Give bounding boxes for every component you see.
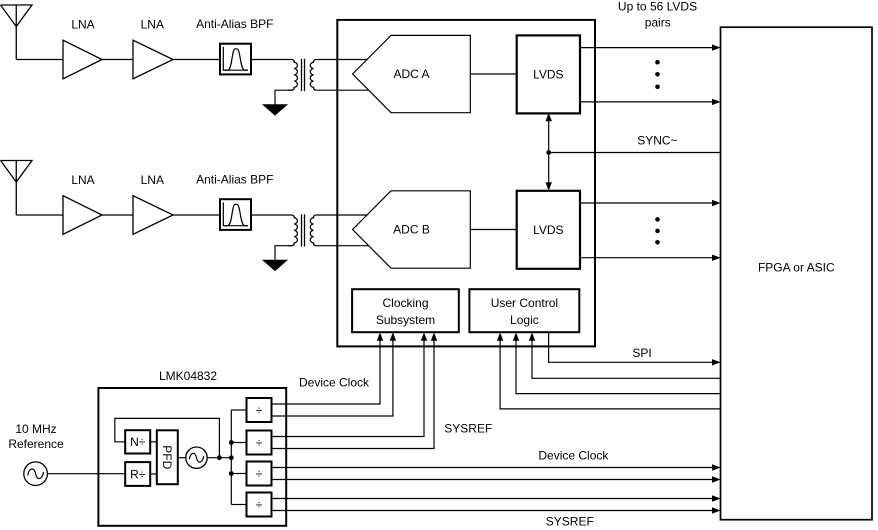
antenna ANT2 bbox=[1, 161, 33, 216]
reference oscillator G1 bbox=[24, 462, 48, 486]
svg-text:FPGA or ASIC: FPGA or ASIC bbox=[758, 261, 835, 275]
svg-text:Subsystem: Subsystem bbox=[376, 313, 435, 327]
wire divider bus vertical bbox=[230, 410, 232, 505]
wire DIV3 device clock b to FPGA bbox=[272, 479, 714, 481]
arrowhead UCL 1 bbox=[497, 332, 503, 341]
svg-text:Anti-Alias BPF: Anti-Alias BPF bbox=[196, 173, 273, 187]
wire FPGA to User Control Logic 2 bbox=[516, 340, 721, 394]
ground GND2 bbox=[262, 260, 288, 271]
wire T2 secondary bottom to ADC B bbox=[316, 245, 369, 247]
LVDS B block bbox=[517, 191, 580, 269]
wire bus to divider 1 bbox=[231, 409, 246, 411]
svg-text:Up to 56 LVDS: Up to 56 LVDS bbox=[618, 0, 697, 14]
divider block DIV2 bbox=[247, 431, 272, 455]
svg-text:LNA: LNA bbox=[71, 17, 94, 31]
divider block DIV3 bbox=[247, 462, 272, 486]
junction feedback tap bbox=[217, 455, 222, 460]
svg-text:Anti-Alias BPF: Anti-Alias BPF bbox=[196, 17, 273, 31]
wire LNA1 to LNA2 bbox=[102, 59, 133, 61]
wire feedback loop to N divider bbox=[115, 418, 220, 457]
wire bus to divider 4 bbox=[231, 504, 246, 506]
svg-text:User Control: User Control bbox=[491, 296, 558, 310]
arrowhead FPGA dclk b bbox=[712, 476, 721, 482]
wire BPF2 to transformer T2 bbox=[252, 214, 292, 216]
svg-text:LVDS: LVDS bbox=[533, 223, 563, 237]
svg-text:÷: ÷ bbox=[256, 498, 263, 512]
wire antenna2 to LNA3 bbox=[16, 214, 63, 216]
wire DIV1 device clock a to Clocking Subsystem bbox=[272, 340, 381, 404]
svg-text:SPI: SPI bbox=[632, 346, 651, 360]
arrowhead FPGA dclk a bbox=[712, 464, 721, 470]
wire DIV3 device clock a to FPGA bbox=[272, 467, 714, 469]
svg-text:Clocking: Clocking bbox=[382, 296, 428, 310]
wire SYNC~ to FPGA bbox=[549, 152, 721, 154]
svg-text:LNA: LNA bbox=[141, 17, 164, 31]
wire bus to divider 3 bbox=[231, 473, 246, 475]
svg-text:ADC A: ADC A bbox=[393, 67, 429, 81]
divider block DIV1 bbox=[247, 398, 272, 422]
wire T1 primary to ground bbox=[275, 90, 288, 104]
wire DIV1 device clock b to Clocking Subsystem bbox=[272, 340, 393, 416]
Clocking Subsystem block bbox=[352, 289, 459, 332]
transformer T1 bbox=[288, 59, 316, 91]
svg-text:Device Clock: Device Clock bbox=[538, 448, 609, 462]
N divider block bbox=[125, 430, 150, 453]
svg-text:SYSREF: SYSREF bbox=[444, 421, 492, 435]
ADC device outer box U1 bbox=[337, 20, 595, 347]
svg-text:LNA: LNA bbox=[141, 173, 164, 187]
arrowhead SPI at FPGA bbox=[712, 359, 721, 365]
User Control Logic block bbox=[469, 289, 579, 332]
amplifier LNA3 bbox=[63, 196, 102, 235]
LVDS A block bbox=[517, 35, 580, 113]
wire ADC A to LVDS A bbox=[470, 73, 516, 75]
svg-text:Reference: Reference bbox=[8, 437, 64, 451]
svg-text:SYSREF: SYSREF bbox=[546, 515, 594, 529]
antenna ANT1 bbox=[1, 5, 33, 60]
svg-text:N÷: N÷ bbox=[130, 435, 146, 449]
transformer T2 bbox=[288, 214, 316, 246]
arrowhead CS 4 bbox=[431, 332, 437, 341]
svg-text:LMK04832: LMK04832 bbox=[159, 369, 217, 383]
junction bus at divider 2 bbox=[229, 440, 234, 445]
ellipsis dots LVDS B bbox=[655, 217, 660, 222]
wire SPI from User Control Logic to FPGA bbox=[549, 332, 714, 362]
arrowhead LVDS B pair2 bbox=[712, 255, 721, 261]
wire T1 secondary bottom to ADC A bbox=[316, 89, 369, 91]
wire PFD to VCO bbox=[178, 457, 186, 459]
SYNC~ net vertical double arrow between LVDS A and LVDS B bbox=[546, 113, 552, 191]
ellipsis dots LVDS A bbox=[655, 60, 660, 65]
arrowhead FPGA sysref b bbox=[712, 507, 721, 513]
amplifier LNA2 bbox=[133, 40, 173, 79]
VCO oscillator bbox=[186, 447, 207, 468]
svg-text:ADC B: ADC B bbox=[393, 223, 430, 237]
wire LNA4 to BPF2 bbox=[173, 214, 219, 216]
wire R divider to PFD bbox=[150, 473, 157, 475]
PFD block bbox=[157, 430, 178, 484]
junction bus at divider 3 bbox=[229, 471, 234, 476]
svg-text:÷: ÷ bbox=[256, 403, 263, 417]
arrowhead CS 3 bbox=[421, 332, 427, 341]
svg-text:Device Clock: Device Clock bbox=[299, 375, 370, 389]
svg-text:R÷: R÷ bbox=[130, 467, 146, 481]
filter FL2 Anti-Alias BPF bbox=[220, 199, 251, 230]
arrowhead UCL 2 bbox=[513, 332, 519, 341]
divider block DIV4 bbox=[247, 493, 272, 517]
arrowhead LVDS B pair1 bbox=[712, 200, 721, 206]
svg-text:pairs: pairs bbox=[645, 16, 671, 30]
wire ADC B to LVDS B bbox=[470, 229, 516, 231]
arrowhead CS 2 bbox=[390, 332, 396, 341]
arrowhead LVDS A pair1 bbox=[712, 44, 721, 50]
filter FL1 Anti-Alias BPF bbox=[220, 44, 251, 75]
LMK04832 clock generator box U2 bbox=[98, 388, 286, 526]
wire LVDS A pair 2 to FPGA bbox=[580, 101, 714, 103]
R divider block bbox=[125, 462, 150, 486]
wire T2 secondary top to ADC B bbox=[316, 214, 367, 216]
svg-text:÷: ÷ bbox=[256, 436, 263, 450]
FPGA or ASIC block bbox=[721, 27, 873, 520]
wire FPGA to User Control Logic 3 bbox=[532, 340, 721, 378]
wire N divider to PFD bbox=[150, 441, 157, 443]
wire antenna1 to LNA1 bbox=[16, 59, 63, 61]
svg-text:PFD: PFD bbox=[160, 445, 174, 469]
wire FPGA to User Control Logic 1 bbox=[500, 340, 720, 409]
wire LNA3 to LNA4 bbox=[102, 214, 133, 216]
arrowhead UCL 3 bbox=[529, 332, 535, 341]
wire bus to divider 2 bbox=[231, 442, 246, 444]
ground GND1 bbox=[262, 104, 288, 115]
wire LVDS A pair 1 to FPGA bbox=[580, 47, 714, 49]
wire LNA2 to BPF1 bbox=[173, 59, 219, 61]
wire LVDS B pair 2 to FPGA bbox=[580, 257, 714, 259]
wire T1 secondary top to ADC A bbox=[316, 59, 367, 61]
junction bus at VCO bbox=[229, 455, 234, 460]
arrowhead LVDS A pair2 bbox=[712, 99, 721, 105]
junction SYNC node bbox=[546, 150, 551, 155]
wire LVDS B pair 1 to FPGA bbox=[580, 202, 714, 204]
wire DIV2 sysref a to Clocking Subsystem bbox=[272, 340, 425, 437]
wire DIV4 sysref a to FPGA bbox=[272, 498, 714, 500]
wire DIV4 sysref b to FPGA bbox=[272, 510, 714, 512]
wire VCO output to divider bus bbox=[207, 457, 231, 459]
ADC B core bbox=[353, 191, 471, 268]
wire reference to R divider bbox=[47, 473, 125, 475]
amplifier LNA1 bbox=[63, 40, 102, 79]
svg-text:10 MHz: 10 MHz bbox=[15, 422, 56, 436]
ADC A core bbox=[353, 35, 471, 112]
svg-text:LVDS: LVDS bbox=[533, 68, 563, 82]
wire BPF1 to transformer T1 bbox=[252, 59, 292, 61]
wire T2 primary to ground bbox=[275, 246, 288, 260]
svg-text:÷: ÷ bbox=[256, 467, 263, 481]
wire DIV2 sysref b to Clocking Subsystem bbox=[272, 340, 435, 449]
svg-text:Logic: Logic bbox=[510, 313, 539, 327]
svg-text:LNA: LNA bbox=[71, 173, 94, 187]
arrowhead CS 1 bbox=[377, 332, 383, 341]
svg-text:SYNC~: SYNC~ bbox=[637, 134, 677, 148]
arrowhead FPGA sysref a bbox=[712, 495, 721, 501]
amplifier LNA4 bbox=[133, 196, 173, 235]
